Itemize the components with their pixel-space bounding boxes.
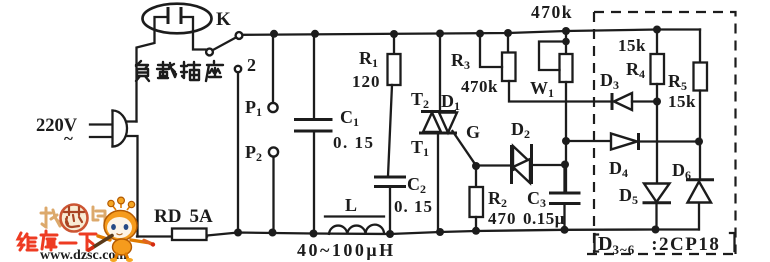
resistor R3 [507,33,509,53]
terminal P1 [268,103,277,112]
resistor R4 [656,30,658,55]
logo text 维库一下 red [18,231,96,250]
dashed box [594,12,736,254]
svg-text:470k: 470k [531,2,573,22]
junction dots bottom bus [234,229,242,237]
switch K [206,49,213,56]
junction dots top bus [270,30,278,38]
svg-text:470: 470 [488,209,517,228]
resistor R1 [393,34,395,54]
svg-text:0. 15: 0. 15 [333,133,375,152]
plug [111,111,113,147]
svg-text:K: K [216,9,231,30]
svg-text:15k: 15k [618,36,646,55]
capacitor C1 [313,34,315,120]
load socket oval [143,4,212,34]
svg-text:2: 2 [247,55,256,75]
svg-text:15k: 15k [668,92,696,111]
svg-text:G: G [466,122,480,142]
magnifier with 芯 [61,205,88,232]
triac D1 [439,34,441,112]
label 负载插座 [136,61,223,81]
diode D3 [611,93,614,110]
diode D5 [644,184,670,203]
capacitor C2 [374,177,406,187]
terminal P2 [269,147,278,156]
svg-text:40~100μH: 40~100μH [297,240,396,260]
socket contacts [168,7,181,24]
resistor R5 [699,30,701,63]
wire terminal 2 down [237,72,239,232]
mascot [89,197,156,262]
svg-text:0. 15: 0. 15 [394,197,433,216]
diode D4 [566,140,611,142]
svg-text:~: ~ [64,129,73,148]
wire P2 down [272,157,274,233]
capacitor C3 [563,164,565,193]
diac D2 [476,164,511,166]
wire plug bottom lead [127,136,138,237]
fuse RD 5A [172,229,207,241]
svg-text:120: 120 [352,72,381,91]
wire gate [453,131,477,166]
svg-text:470k: 470k [461,77,498,96]
wire top bus [242,30,700,35]
wire socket left lead [137,17,167,122]
node gate junction [472,162,480,170]
diode D6 [686,178,714,181]
wire P1 up [272,34,274,103]
wire socket right lead [182,17,206,50]
logo text 找芯片 [41,208,61,227]
logo text 片 [93,207,105,224]
junction dots middle [562,137,570,145]
svg-text:L: L [345,195,357,215]
svg-text:0.15μ: 0.15μ [523,209,565,228]
resistor R2 [475,166,477,187]
terminal 2 [235,66,241,72]
wire bottom bus [137,230,699,237]
wire plug top lead [126,120,137,122]
